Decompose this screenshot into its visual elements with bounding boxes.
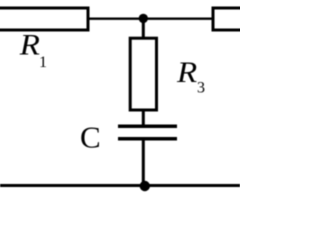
capacitor C <box>80 119 177 154</box>
svg-text:C: C <box>80 119 101 154</box>
resistor R1 <box>0 8 88 71</box>
wire R1 to node A <box>88 18 143 20</box>
svg-text:R: R <box>176 55 197 88</box>
bottom wire (ground rail) <box>0 184 240 187</box>
bottom node junction dot <box>140 181 150 191</box>
svg-text:R: R <box>19 28 40 61</box>
wire capacitor to bottom node <box>142 138 145 186</box>
svg-text:1: 1 <box>39 54 47 71</box>
wire node A to resistor R2 <box>143 18 213 20</box>
resistor R3 <box>130 38 205 110</box>
resistor R2 (cut off at right edge) <box>213 8 253 30</box>
wire node A to R3 <box>142 18 145 39</box>
node A junction dot <box>139 14 148 23</box>
wire R3 to capacitor C <box>142 109 145 126</box>
svg-text:3: 3 <box>197 80 205 97</box>
